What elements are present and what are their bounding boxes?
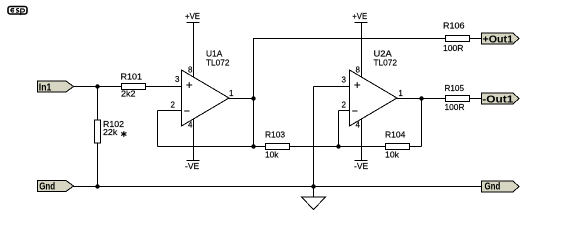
- port Gnd left: [38, 181, 74, 192]
- junction node U2A output: [419, 96, 423, 100]
- power +VE bar U2A: [355, 22, 368, 24]
- svg-text:R103: R103: [265, 131, 286, 140]
- wire R105 to -Out1 tag: [470, 98, 482, 100]
- junction node R103/R104/U2A pin2: [336, 144, 340, 148]
- wire U1A pin2 feedback left leg: [158, 110, 182, 112]
- svg-text:Gnd: Gnd: [485, 182, 501, 193]
- svg-text:+VE: +VE: [352, 12, 367, 21]
- wire U2A -VE stub: [361, 116, 363, 161]
- wire R102 bottom to ground rail: [97, 143, 99, 187]
- port +Out1: [482, 33, 520, 44]
- resistor R101 body: [122, 84, 146, 90]
- svg-text:+Out1: +Out1: [483, 35, 514, 46]
- port -Out1: [482, 93, 520, 104]
- svg-text:R101: R101: [121, 73, 143, 82]
- junction node U1A output: [251, 96, 255, 100]
- svg-text:R105: R105: [445, 84, 465, 93]
- resistor R102 body: [95, 120, 101, 143]
- svg-text:8: 8: [188, 66, 193, 75]
- svg-text:100R: 100R: [445, 103, 465, 112]
- svg-text:R104: R104: [385, 131, 406, 140]
- svg-text:R106: R106: [443, 22, 465, 31]
- wire U1A +VE stub: [193, 23, 195, 81]
- svg-text:-Out1: -Out1: [482, 95, 514, 106]
- power -VE bar U1A: [187, 160, 200, 162]
- svg-text:In1: In1: [39, 83, 52, 94]
- svg-text:-VE: -VE: [354, 162, 368, 171]
- svg-text:U1A: U1A: [206, 50, 223, 59]
- svg-text:10k: 10k: [385, 151, 400, 160]
- port Gnd right: [482, 181, 520, 192]
- resistor R106 body: [446, 36, 470, 42]
- wire R103 to node R104: [290, 146, 386, 148]
- svg-text:+VE: +VE: [185, 12, 200, 21]
- wire U2A output to R105: [396, 98, 446, 100]
- wire U1A output node vertical: [253, 39, 255, 147]
- svg-text:TL072: TL072: [206, 59, 230, 68]
- power -VE bar U2A: [355, 160, 368, 162]
- wire ground rail: [73, 186, 482, 188]
- op-amp U2A minus symbol: [352, 110, 357, 112]
- svg-text:100R: 100R: [443, 44, 464, 53]
- svg-text:1: 1: [398, 89, 403, 98]
- svg-text:4: 4: [356, 121, 361, 130]
- wire U2A pin2 to R103/R104 node: [339, 110, 350, 112]
- wire U1A -VE stub: [193, 116, 195, 161]
- wire R106 to +Out1 tag: [470, 38, 482, 40]
- resistor R103 body: [266, 144, 290, 150]
- svg-text:4: 4: [188, 121, 193, 130]
- svg-text:22k: 22k: [103, 128, 118, 137]
- wire U2A pin3 to ground: [314, 86, 351, 88]
- svg-text:1: 1: [229, 89, 234, 98]
- junction node In1/R101/R102: [95, 84, 99, 88]
- op-amp U1A: [182, 70, 230, 126]
- wire +Out1 top row: [253, 38, 446, 40]
- svg-text:10k: 10k: [265, 151, 280, 160]
- wire node In1 down through R102 to ground rail: [97, 87, 99, 121]
- wire feedback bottom to R103: [158, 146, 266, 148]
- svg-text:Gnd: Gnd: [39, 182, 55, 193]
- port In1: [38, 81, 74, 92]
- resistor R105 body: [446, 96, 470, 102]
- ground symbol: [302, 197, 326, 210]
- wire R101 to U1A pin3: [146, 86, 183, 88]
- svg-text:2k2: 2k2: [121, 90, 136, 99]
- asterisk star of R102: [121, 131, 126, 137]
- wire R104 right to corner up: [410, 146, 422, 148]
- power +VE bar U1A: [187, 22, 200, 24]
- op-amp U1A minus symbol: [184, 110, 189, 112]
- op-amp U2A: [350, 70, 398, 126]
- svg-text:2: 2: [171, 101, 176, 110]
- ESP logo: [8, 7, 27, 16]
- wire In1 to R101: [73, 86, 122, 88]
- op-amp U1A plus symbol: [186, 82, 192, 88]
- svg-text:U2A: U2A: [374, 50, 393, 59]
- wire U1A output to node: [228, 98, 254, 100]
- svg-text:3: 3: [342, 76, 347, 85]
- svg-text:TL072: TL072: [374, 59, 398, 68]
- op-amp U2A plus symbol: [354, 82, 360, 88]
- resistor R104 body: [386, 144, 410, 150]
- svg-text:-VE: -VE: [185, 162, 199, 171]
- wire ground symbol stub: [313, 187, 315, 198]
- wire U2A +VE stub: [361, 23, 363, 81]
- svg-text:3: 3: [175, 75, 180, 84]
- junction node U2A pin3/ground rail: [311, 184, 315, 188]
- svg-text:8: 8: [356, 66, 361, 75]
- junction node U1A output/R103 row: [251, 144, 255, 148]
- svg-text:2: 2: [342, 101, 347, 110]
- junction node R102/ground rail: [95, 184, 99, 188]
